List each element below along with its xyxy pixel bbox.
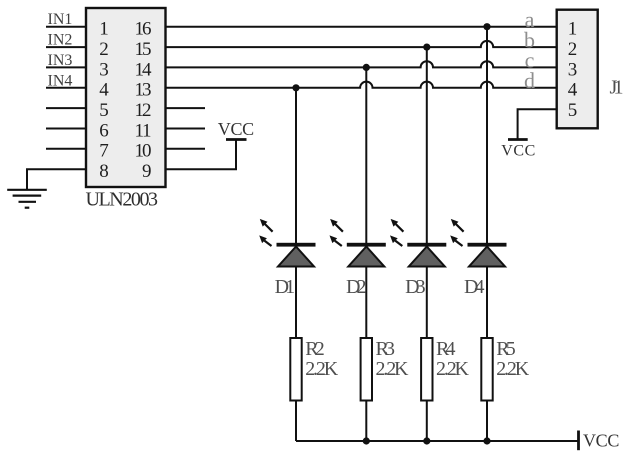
svg-text:D2: D2: [346, 276, 367, 298]
svg-text:IN3: IN3: [48, 52, 73, 69]
resistor R4: [421, 338, 432, 401]
svg-text:VCC: VCC: [583, 431, 619, 451]
resistor R3: [361, 338, 372, 401]
junction on bus at column D3: [423, 437, 430, 444]
wire U1 pin 16 to J1 pin 1 (net a): [166, 26, 557, 28]
svg-text:IN2: IN2: [48, 32, 73, 49]
svg-text:ULN2003: ULN2003: [86, 189, 159, 211]
svg-text:R5: R5: [496, 338, 516, 360]
LED D4: [450, 219, 506, 267]
svg-text:2: 2: [99, 39, 109, 60]
wire U1 pin 12 stub: [166, 107, 206, 109]
svg-text:D3: D3: [405, 276, 426, 298]
svg-text:8: 8: [99, 161, 109, 182]
svg-text:3: 3: [99, 59, 109, 80]
svg-text:R4: R4: [436, 338, 456, 360]
ground symbol: [7, 190, 47, 208]
wire column D1 (net d down to bottom bus): [295, 88, 297, 441]
svg-text:6: 6: [99, 120, 109, 141]
wire U1 pin 7 stub: [46, 148, 86, 150]
svg-text:7: 7: [99, 141, 109, 162]
wire U1 pin 8 to ground: [27, 169, 86, 189]
svg-text:D4: D4: [464, 276, 485, 298]
VCC symbol at J1 pin 5: [508, 138, 528, 141]
wire U1 pin 15 to J1 pin 2 (net b) with hop: [166, 41, 557, 47]
connector J1 body: [557, 10, 598, 129]
svg-text:5: 5: [99, 100, 109, 121]
svg-text:12: 12: [135, 100, 152, 121]
wire IN1 to U1 pin 1: [46, 26, 86, 28]
svg-text:2.2K: 2.2K: [496, 358, 530, 380]
LED D3: [390, 219, 446, 267]
svg-text:d: d: [524, 68, 535, 93]
svg-text:2.2K: 2.2K: [376, 358, 410, 380]
svg-text:4: 4: [99, 80, 109, 101]
svg-text:2.2K: 2.2K: [305, 358, 339, 380]
junction on net a at column D4: [483, 23, 490, 30]
svg-text:1: 1: [99, 19, 109, 40]
svg-text:IN4: IN4: [48, 72, 73, 89]
svg-text:14: 14: [135, 59, 153, 80]
svg-text:J1: J1: [610, 77, 624, 99]
svg-text:9: 9: [142, 161, 152, 182]
svg-text:16: 16: [135, 19, 152, 40]
wire U1 pin 6 stub: [46, 128, 86, 130]
wire IN2 to U1 pin 2: [46, 46, 86, 48]
LED D1: [259, 219, 315, 267]
VCC symbol at U1 pin 9: [226, 138, 247, 141]
wire U1 pin 14 to J1 pin 3 (net c) with hops: [166, 61, 557, 67]
svg-text:VCC: VCC: [218, 119, 254, 139]
svg-text:13: 13: [135, 80, 152, 101]
junction on net d at column D1: [292, 84, 299, 91]
svg-text:IN1: IN1: [48, 11, 73, 28]
wire U1 pin 13 to J1 pin 4 (net d) with hops: [166, 82, 557, 88]
resistor R5: [481, 338, 492, 401]
wire column D3 (net b down to bottom bus): [426, 47, 428, 441]
wire IN4 to U1 pin 4: [46, 87, 86, 89]
svg-text:2: 2: [568, 39, 578, 60]
svg-text:5: 5: [568, 100, 578, 121]
wire U1 pin 11 stub: [166, 128, 206, 130]
junction on bus at column D4: [483, 437, 490, 444]
svg-text:VCC: VCC: [501, 142, 535, 159]
svg-text:4: 4: [568, 80, 578, 101]
wire U1 pin 9 to VCC: [166, 140, 237, 170]
svg-text:10: 10: [135, 141, 152, 162]
wire IN3 to U1 pin 3: [46, 66, 86, 68]
svg-text:R3: R3: [376, 338, 396, 360]
svg-text:1: 1: [568, 19, 578, 40]
svg-text:D1: D1: [275, 276, 296, 298]
junction on bus at column D2: [363, 437, 370, 444]
op-amp U1 ULN2003 body: [86, 8, 166, 187]
svg-text:15: 15: [135, 39, 152, 60]
wire U1 pin 10 stub: [166, 148, 206, 150]
wire column D2 (net c down to bottom bus): [365, 67, 367, 441]
svg-text:R2: R2: [305, 338, 325, 360]
VCC symbol at bus end: [577, 431, 580, 451]
svg-text:11: 11: [135, 120, 152, 141]
wire column D4 (net a down to bottom bus): [486, 27, 488, 441]
wire U1 pin 5 stub: [46, 107, 86, 109]
wire J1 pin 5 to VCC: [518, 109, 557, 138]
junction on net b at column D3: [423, 44, 430, 51]
wire bottom VCC bus: [296, 440, 579, 442]
LED D2: [330, 219, 386, 267]
svg-text:2.2K: 2.2K: [436, 358, 470, 380]
resistor R2: [290, 338, 301, 401]
svg-text:3: 3: [568, 59, 578, 80]
junction on net c at column D2: [363, 64, 370, 71]
